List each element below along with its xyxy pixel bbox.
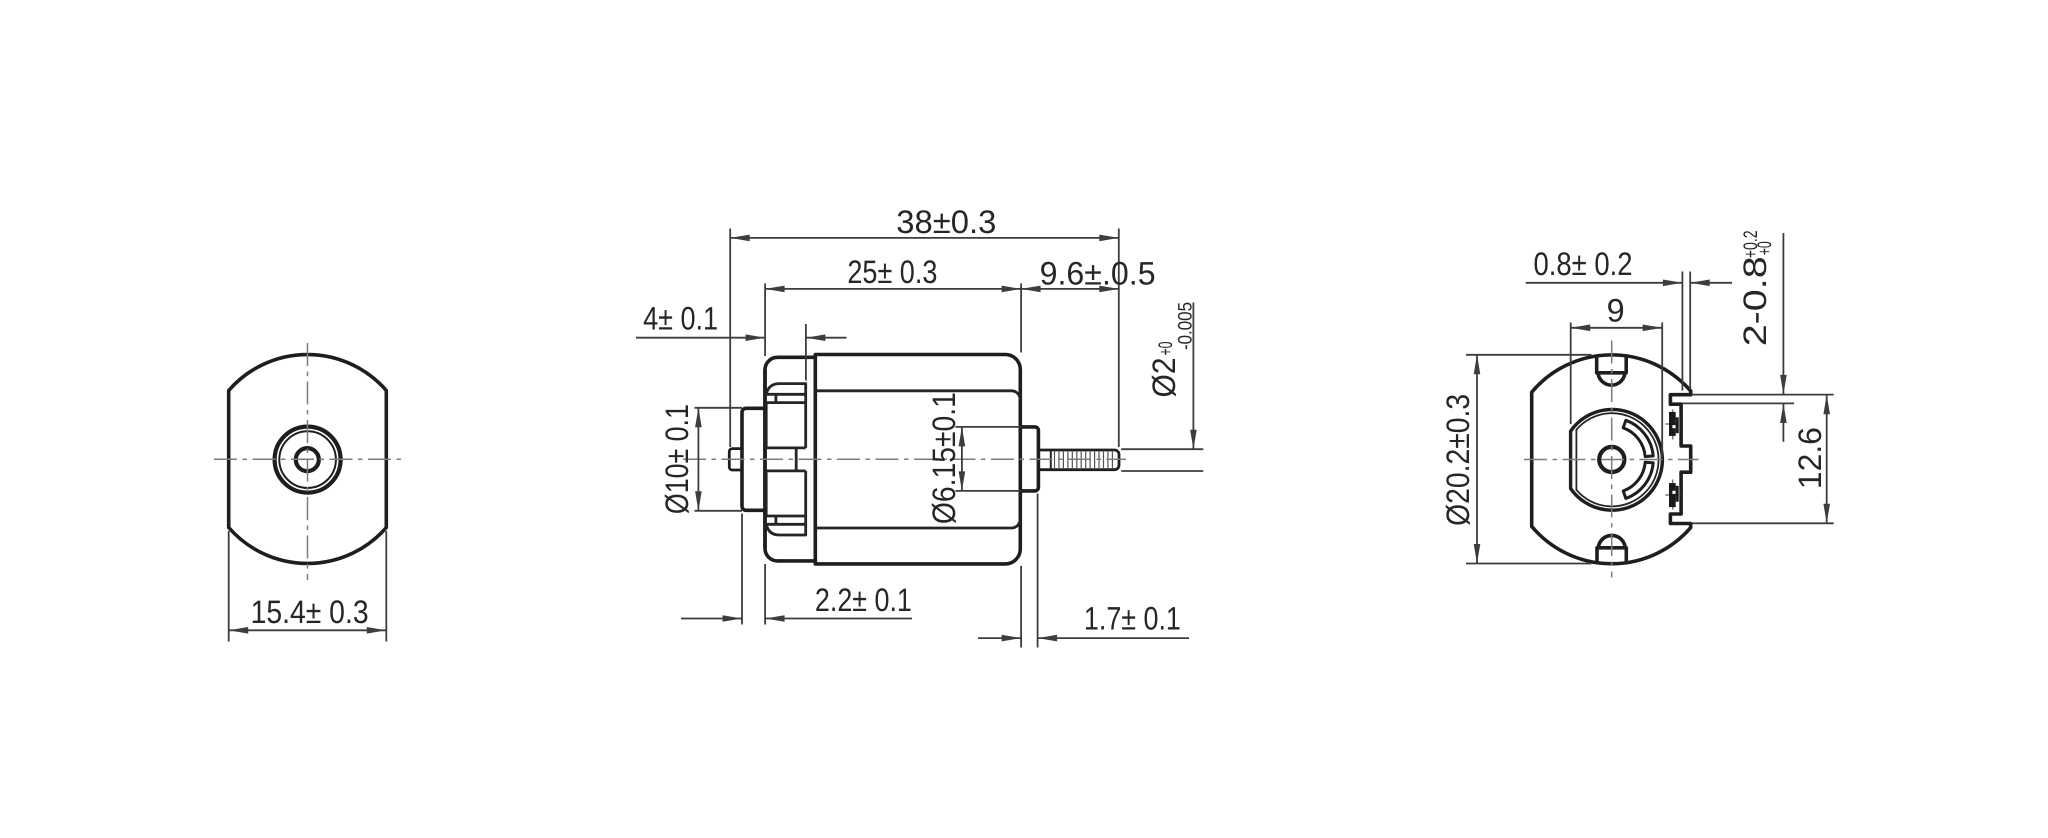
svg-text:2-0.8: 2-0.8 — [1737, 256, 1773, 346]
svg-text:+0: +0 — [1754, 241, 1776, 255]
svg-text:9.6±.0.5: 9.6±.0.5 — [1040, 256, 1156, 292]
svg-text:12.6: 12.6 — [1792, 427, 1828, 489]
svg-text:2.2± 0.1: 2.2± 0.1 — [815, 582, 912, 618]
svg-text:Ø20.2±0.3: Ø20.2±0.3 — [1440, 394, 1476, 526]
svg-text:25± 0.3: 25± 0.3 — [847, 254, 937, 290]
svg-text:Ø10± 0.1: Ø10± 0.1 — [659, 404, 695, 514]
svg-text:15.4± 0.3: 15.4± 0.3 — [251, 594, 369, 630]
svg-text:9: 9 — [1607, 293, 1625, 329]
svg-text:-0.005: -0.005 — [1175, 302, 1197, 350]
svg-text:4± 0.1: 4± 0.1 — [643, 300, 718, 336]
svg-text:38±0.3: 38±0.3 — [896, 204, 996, 240]
svg-text:0.8± 0.2: 0.8± 0.2 — [1534, 246, 1633, 282]
svg-text:1.7± 0.1: 1.7± 0.1 — [1084, 601, 1181, 637]
svg-text:Ø2: Ø2 — [1146, 358, 1182, 398]
svg-text:Ø6.15±0.1: Ø6.15±0.1 — [926, 392, 962, 524]
